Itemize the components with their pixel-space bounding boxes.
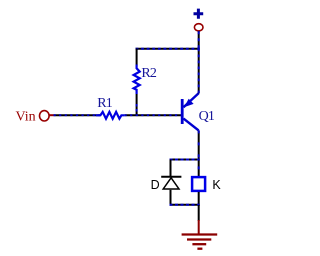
wire Vin stub <box>49 114 53 116</box>
svg-text:Vin: Vin <box>16 109 36 124</box>
port Vin terminal circle <box>40 111 50 121</box>
svg-text:K: K <box>212 178 221 192</box>
wire terminal to top rail <box>198 31 200 48</box>
wire R1 to base <box>125 114 182 116</box>
power terminal circle <box>194 24 203 31</box>
wire top rail <box>136 48 200 50</box>
resistor R2 <box>134 65 140 95</box>
wire snubber top rail <box>170 159 200 161</box>
diode D <box>161 177 181 189</box>
wire collector down <box>198 130 200 176</box>
wire ground stem <box>198 205 200 234</box>
wire Vin to R1 <box>54 114 101 116</box>
wire R2 bottom lead <box>136 94 138 115</box>
relay coil K <box>192 177 205 191</box>
ground <box>182 235 218 249</box>
wire K bottom lead <box>198 192 200 205</box>
power symbol + <box>194 9 204 19</box>
wire emitter up to rail <box>198 49 200 94</box>
svg-text:Q1: Q1 <box>199 109 215 124</box>
wire snubber bottom rail <box>170 204 200 206</box>
wire R2 top lead <box>136 49 138 66</box>
resistor R1 <box>96 112 125 119</box>
wire diode bottom lead <box>170 190 172 205</box>
svg-text:R1: R1 <box>97 96 113 111</box>
svg-text:R2: R2 <box>141 66 157 81</box>
transistor Q1 <box>181 93 199 130</box>
wire snubber left drop <box>170 160 172 177</box>
svg-text:D: D <box>151 178 160 192</box>
